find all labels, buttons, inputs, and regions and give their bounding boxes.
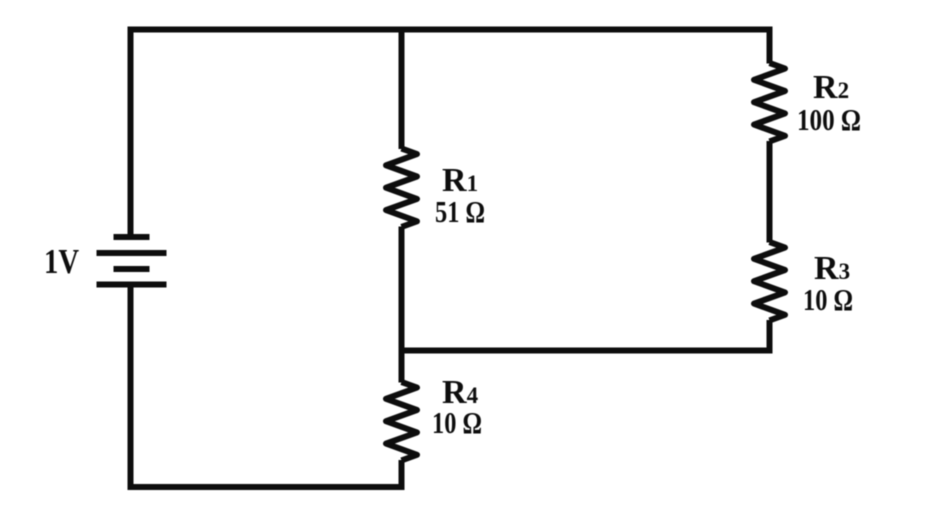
battery V1 lower short plate (negative) — [114, 266, 150, 272]
resistor R2 zigzag — [754, 63, 785, 141]
svg-text:100 Ω: 100 Ω — [797, 102, 861, 137]
wire: R3 bottom lead down to middle rail corner — [767, 320, 773, 354]
wire: bottom rail from R4 leg to bottom-left corner — [128, 484, 405, 490]
wire: R1 bottom lead down to node A — [399, 227, 405, 354]
svg-text:1V: 1V — [44, 242, 79, 281]
resistor R3 zigzag — [754, 242, 785, 320]
wire: R4 bottom lead down to bottom rail — [399, 460, 405, 490]
wire: R2 bottom lead to R3 top lead — [767, 141, 773, 243]
wire: middle branch from top rail down to R1 — [399, 33, 405, 150]
resistor R1 zigzag — [386, 149, 417, 227]
wire: middle horizontal rail from node A to right branch — [399, 348, 773, 354]
wire: node A down to R4 top lead — [399, 348, 405, 383]
svg-text:10 Ω: 10 Ω — [432, 405, 482, 440]
svg-text:10 Ω: 10 Ω — [803, 282, 853, 317]
battery V1 bottom long plate (positive) — [97, 282, 167, 288]
wire: left vertical, battery top plate up to top-left corner — [128, 33, 134, 238]
wire: top rail from top-left corner to top-right corner — [128, 27, 773, 33]
wire: top-right corner down to R2 top lead — [767, 27, 773, 64]
wire: bottom-left corner up to battery bottom plate — [128, 285, 134, 491]
battery V1 upper long plate (positive) — [97, 250, 167, 256]
battery V1 top short plate (negative) — [114, 234, 150, 240]
resistor R4 zigzag — [386, 382, 417, 460]
svg-text:R2: R2 — [813, 69, 849, 106]
svg-text:51 Ω: 51 Ω — [435, 194, 485, 229]
